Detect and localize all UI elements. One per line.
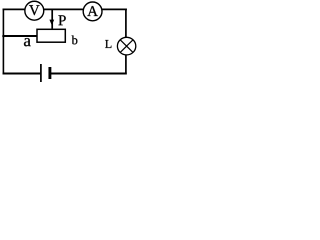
- label V: [29, 5, 39, 15]
- battery short thick plate: [48, 67, 51, 79]
- label a: [24, 38, 31, 46]
- slider arrow P: [49, 20, 54, 26]
- lamp circle: [117, 37, 135, 55]
- wire top: [3, 8, 127, 10]
- wire left edge: [2, 9, 4, 75]
- lamp cross stroke 1: [120, 40, 133, 53]
- rheostat box: [37, 29, 65, 42]
- wire bottom left: [3, 73, 41, 75]
- junction dot: [2, 35, 5, 38]
- label L: [105, 40, 111, 48]
- wire right edge upper: [125, 9, 127, 39]
- voltmeter circle: [25, 1, 44, 20]
- label P: [58, 15, 65, 25]
- wire to terminal a: [3, 35, 37, 37]
- wire bottom right: [51, 73, 127, 75]
- label b: [72, 36, 78, 45]
- label A: [87, 6, 98, 16]
- lamp cross stroke 2: [120, 40, 133, 53]
- wire right edge lower: [125, 55, 127, 75]
- battery long plate: [40, 64, 42, 82]
- slider stem: [51, 9, 53, 28]
- ammeter circle: [83, 2, 102, 21]
